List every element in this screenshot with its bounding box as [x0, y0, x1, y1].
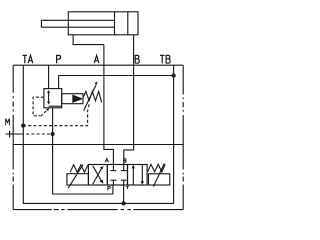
label TA — [23, 55, 28, 63]
wire reducing valve tank line to TB — [59, 76, 174, 89]
V1 pilot sensing dashed box — [33, 97, 44, 116]
DCV envelope — [88, 165, 147, 186]
DCV left spring — [70, 165, 88, 173]
label A — [94, 55, 99, 63]
V1 spring drain dashed line to TA — [25, 104, 90, 125]
wire TB line — [173, 65, 175, 203]
label B — [135, 55, 139, 63]
wire P inlet to reducing valve — [48, 65, 50, 88]
cylinder rod — [41, 20, 114, 27]
label TB — [160, 55, 165, 63]
DCV box1 crossed arrows — [93, 166, 102, 182]
node valve tank to TB junction — [171, 73, 175, 77]
V1 internal bottom line — [49, 105, 62, 107]
wire A line — [104, 45, 114, 165]
DCV box2 blocked ports — [111, 165, 117, 171]
V1 pilot box with triangle — [62, 94, 83, 104]
manifold left boundary (dash-dot) — [12, 65, 14, 209]
DCV left solenoid — [67, 174, 89, 185]
cylinder body — [68, 12, 138, 35]
V1 pilot arrow — [41, 111, 47, 117]
manifold top port line — [13, 64, 183, 66]
DCV box3 straight arrows — [132, 167, 134, 185]
DCV right spring — [148, 164, 166, 171]
manifold right boundary (dash-dot) — [182, 65, 184, 209]
label P — [57, 55, 61, 63]
DCV right solenoid — [149, 174, 170, 185]
V1 adjustment arrow — [84, 84, 97, 110]
wire TA line and tank gallery — [23, 65, 173, 203]
V1 spring — [83, 91, 101, 102]
pressure reducing valve V1 body — [44, 89, 62, 108]
M gauge port plug — [6, 131, 22, 138]
cylinder piston — [115, 12, 128, 35]
M gauge dashed line — [21, 133, 51, 135]
node M junction on reduced line — [51, 132, 55, 136]
manifold bottom boundary (dash-dot) — [13, 209, 183, 211]
wire B line — [124, 65, 134, 164]
label DCV B — [124, 159, 126, 163]
node T gallery junction — [121, 201, 125, 205]
separator line between plates — [13, 144, 183, 146]
wire reduced pressure outlet down to DCV P — [53, 108, 113, 194]
wire DCV T to tank gallery — [123, 185, 125, 203]
wire cylinder rod-side port to A — [73, 35, 104, 45]
label DCV A — [105, 158, 109, 162]
wire cylinder cap-side port to B — [133, 35, 135, 65]
V1 internal flow arrow — [48, 92, 50, 103]
label DCV P — [108, 186, 110, 190]
node drain-TA junction — [21, 124, 25, 128]
label M — [6, 119, 10, 126]
label DCV T — [126, 186, 129, 189]
